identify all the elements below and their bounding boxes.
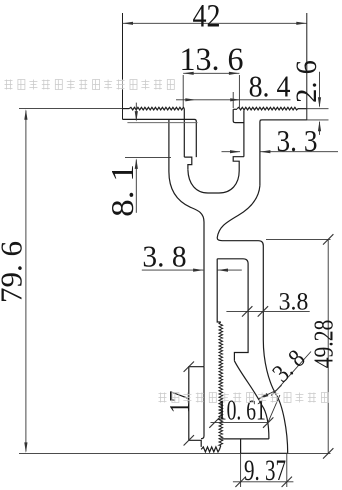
svg-text:3. 3: 3. 3 (277, 124, 318, 158)
svg-text:8. 1: 8. 1 (105, 164, 140, 217)
profile: stem left wall lower / foot inner (201, 367, 204, 439)
profile: bottom step down to ground pad (240, 439, 242, 454)
profile: slot right wall (243, 110, 245, 156)
profile: inner transition curve (234, 361, 269, 439)
dim 9.37: pad width (240, 453, 242, 487)
dim 8.1: lip depth left (127, 122, 197, 124)
svg-text:3.8: 3.8 (279, 288, 309, 316)
dim 42: top width (123, 22, 307, 24)
profile: right hook steps (233, 157, 244, 168)
svg-text:17: 17 (163, 391, 195, 414)
profile: serrated top right segment (233, 108, 237, 110)
svg-text:49.28: 49.28 (309, 320, 339, 369)
foot box (189, 367, 204, 447)
profile: U outer right wall to stem (217, 186, 288, 454)
dim 3.8: stem thickness (142, 269, 204, 271)
svg-text:79. 6: 79. 6 (0, 241, 29, 303)
profile: right shelf bottom (260, 120, 307, 186)
dim 79.6: total height (19, 108, 123, 110)
svg-text:8. 4: 8. 4 (249, 70, 291, 104)
extension for curved-wall ref (268, 395, 280, 422)
svg-text:10. 61: 10. 61 (217, 395, 266, 426)
watermark row 2 (159, 393, 167, 403)
dim 10.61: cavity width (211, 422, 269, 424)
svg-text:13. 6: 13. 6 (179, 42, 243, 79)
profile: wing lid inner (217, 259, 248, 361)
svg-text:9. 37: 9. 37 (244, 453, 286, 487)
profile: cavity floor (222, 438, 269, 440)
dim 3.8: curved wall (diagonal) (259, 390, 277, 399)
svg-text:42: 42 (192, 0, 220, 34)
profile: left lip bottom step (184, 157, 192, 170)
watermark row 1 (5, 80, 13, 90)
profile: serrated top surface left segment (129, 107, 184, 110)
profile: stem right serrated wall (219, 322, 223, 446)
profile: left shelf bottom + left lip (123, 119, 197, 157)
dim 13.6: slot opening (183, 72, 239, 74)
dim 8.4: throat width (176, 99, 291, 101)
profile: ground pad bottom (241, 452, 288, 454)
dim 3.3: wall thickness right (222, 151, 241, 153)
profile: U-channel inner cavity bottom (188, 168, 239, 193)
foot serrated pad bottom (201, 447, 219, 452)
profile: left edge (122, 13, 124, 119)
svg-text:3. 8: 3. 8 (142, 239, 186, 274)
dim 17: foot height (184, 362, 194, 372)
dim 3.8: wing wall (226, 310, 309, 312)
dim 49.28: right height (266, 238, 331, 240)
svg-text:2. 6: 2. 6 (290, 60, 323, 103)
profile: right corner notch (233, 109, 244, 122)
profile: slot left wall (183, 109, 185, 158)
profile: right edge (306, 13, 308, 120)
profile: U outer left wall (169, 119, 204, 366)
profile: stem right wall upper (217, 259, 221, 322)
dim 2.6: right plate thickness (298, 108, 329, 110)
